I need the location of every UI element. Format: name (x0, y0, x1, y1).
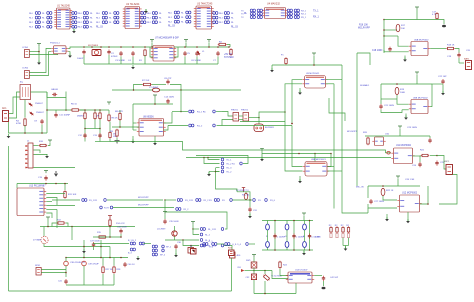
svg-text:C34 100N: C34 100N (117, 227, 127, 229)
IC U13 PIC16F887 (17, 188, 46, 216)
wire c6 gnd (196, 57, 198, 65)
resistor R27 (102, 266, 104, 274)
IC U11 MCP6002 (391, 148, 414, 164)
U9B refdes (311, 159, 327, 161)
resistor-diode D6 (109, 131, 111, 139)
wire U1 gnd (73, 29, 75, 32)
svg-text:C4: C4 (128, 60, 132, 62)
crystal cap box (251, 274, 256, 280)
array A net label r0 (29, 13, 34, 15)
wire ce1 v2 (65, 266, 67, 277)
wire icsp 2 (34, 150, 41, 153)
+5V label line1 (224, 54, 232, 56)
wire spk join (144, 243, 152, 245)
wire R19 down (396, 95, 398, 99)
power flag led block (302, 213, 306, 216)
capacitor C27 (369, 199, 372, 204)
ladder v1 (84, 110, 86, 129)
led block bottom rail (262, 249, 313, 251)
wire C18 (384, 51, 390, 53)
wire pic out4 (46, 205, 75, 207)
connector AC1 (3, 111, 9, 122)
C14 label (164, 97, 174, 99)
net after R25 c (270, 200, 276, 202)
wire cross y125 (217, 125, 293, 127)
capacitor C6 (195, 51, 198, 56)
resistor R9 (116, 129, 118, 138)
junction U5 flag (313, 64, 315, 66)
net r2 a (104, 208, 109, 210)
svg-text:GBU4J: GBU4J (51, 89, 58, 91)
junction rail 109 (108, 46, 110, 48)
net label far right (244, 13, 248, 15)
ICSP refdes (27, 141, 30, 143)
wire c4 gnd (132, 57, 134, 65)
wire piezo1 (172, 111, 188, 113)
wire piezo link b (239, 119, 243, 121)
svg-text:10K: 10K (401, 28, 405, 30)
svg-text:R1: R1 (139, 60, 143, 62)
svg-text:U7 MC34063API 8-DIP: U7 MC34063API 8-DIP (155, 37, 179, 40)
wire U12 in2 (368, 204, 397, 208)
wire MCLR rail (384, 29, 397, 31)
bead D1 (200, 244, 205, 247)
svg-text:RL: RL (90, 27, 94, 29)
piezo net2 (197, 126, 203, 128)
junction rtc in (253, 270, 255, 272)
svg-text:R1_0: R1_0 (270, 200, 276, 202)
array C net label r0 b (109, 13, 113, 15)
net stack r2 (227, 164, 236, 166)
ladder v3 (99, 110, 101, 129)
U4 refdes (267, 3, 281, 6)
wire x72 down (71, 227, 73, 241)
wire U6A in1 (398, 36, 409, 46)
jumper J2 (191, 249, 197, 255)
array G label r2 (241, 17, 244, 19)
R9 label (110, 131, 114, 133)
wire pic low rail (40, 226, 135, 228)
CON1 refdes (22, 47, 29, 49)
net label right of H 1 (313, 11, 319, 13)
svg-text:R19: R19 (400, 89, 405, 91)
array E bead r1 a (174, 16, 179, 19)
array H bead r1 b (294, 12, 299, 15)
junction C9 bottom (41, 132, 43, 134)
C1 value (77, 58, 84, 60)
array C bead r2 a (102, 21, 107, 24)
st4 net label (356, 187, 364, 189)
resistor R14 (109, 219, 111, 227)
wire icsp bottom (34, 167, 76, 169)
svg-text:R2: R2 (346, 225, 349, 227)
svg-text:AC1: AC1 (2, 107, 7, 110)
ladder v4 low (109, 122, 111, 133)
bead piezo2b (213, 124, 216, 127)
array B bead r0 a (72, 12, 77, 15)
C8 label (164, 78, 172, 80)
junction frail 84 (83, 257, 85, 259)
svg-text:RX_1: RX_1 (301, 17, 307, 19)
wire st4 left (367, 186, 369, 198)
rgroup gnd stub (345, 246, 347, 249)
svg-text:U11 MCP6002: U11 MCP6002 (396, 145, 412, 147)
svg-text:RL2: RL2 (168, 22, 173, 24)
svg-text:RL: RL (109, 18, 113, 20)
junction R16 top (383, 19, 385, 21)
filter bottom rail (66, 284, 114, 286)
svg-text:1N4007: 1N4007 (35, 103, 43, 105)
junction timer 155-104 (154, 103, 156, 105)
net mclr 2 (138, 205, 149, 207)
ground U8 right (153, 141, 157, 145)
svg-text:U6A MCP6002: U6A MCP6002 (414, 39, 429, 42)
svg-text:RL_2: RL_2 (227, 172, 233, 174)
svg-text:R1_2: R1_2 (184, 209, 190, 211)
wire rtc h1 (254, 270, 272, 272)
cap column 0 junction top (274, 220, 276, 222)
array A bead r0 a (35, 12, 40, 15)
ground U6B (404, 116, 408, 120)
array C net label r2 (96, 22, 101, 24)
bead spk r1 (152, 245, 157, 248)
junction r14 (109, 226, 111, 228)
bead stack r1 (221, 158, 224, 161)
array G bead r1 a (250, 12, 255, 15)
wire row1 tail (233, 199, 253, 201)
wire c37 stub (93, 247, 95, 250)
ground blob top right (442, 25, 446, 28)
C21 label (384, 105, 394, 107)
power flag U5 (312, 53, 316, 56)
svg-text:RL1: RL1 (29, 18, 34, 20)
wire rtc bottom (254, 293, 296, 295)
array G label r0 (241, 10, 244, 12)
led column 1 wire mid (286, 230, 288, 242)
ground filter (82, 249, 86, 253)
svg-text:RL1: RL1 (219, 18, 224, 20)
IC U9A (302, 76, 327, 89)
wire U8 vleft (132, 104, 134, 130)
RTC in label (238, 267, 242, 269)
capacitor C10 (52, 93, 57, 96)
C15 label (38, 177, 43, 179)
wire bus gnd stub (261, 154, 263, 160)
led D7 dashed (41, 236, 48, 243)
array B net label r0 (78, 13, 83, 15)
svg-text:RL0: RL0 (219, 13, 224, 15)
svg-text:BAT1: BAT1 (464, 58, 470, 61)
C11 label (59, 115, 71, 117)
svg-text:Q1 2N39: Q1 2N39 (157, 229, 166, 231)
resistor R10 (39, 144, 48, 146)
junction buzzer x285 (284, 111, 286, 113)
st2 net label (360, 84, 370, 87)
wire buzzer down (258, 118, 260, 125)
power flag PS input (37, 44, 41, 47)
array F right of U3 bead r1 b (224, 16, 229, 19)
IC opto PS2501 (51, 46, 68, 54)
IC U2 74LS244 (123, 7, 142, 29)
resistor R2 (218, 43, 227, 45)
resistor R22 ellipse (381, 188, 385, 195)
svg-text:SP_2: SP_2 (160, 255, 166, 257)
junction rail 133 (132, 46, 134, 48)
array G bead r0 b (257, 9, 262, 12)
svg-text:MCLR/VPP: MCLR/VPP (347, 131, 358, 133)
inductor L1 diag (196, 50, 201, 56)
bead spk r2 (152, 249, 157, 252)
svg-text:1000P: 1000P (77, 58, 84, 60)
wire U9 gnd (299, 88, 301, 93)
svg-text:C6 100NF: C6 100NF (191, 60, 202, 62)
wire stack r1 (208, 158, 220, 160)
led column 0 wire bot (267, 248, 269, 251)
wire x357 long (356, 53, 358, 186)
svg-text:F1: F1 (281, 55, 284, 57)
wire st3 out (413, 155, 422, 157)
array B bead r3 b (83, 25, 88, 28)
array E net label r0 (168, 12, 173, 14)
array A bead r0 b (47, 12, 52, 15)
wire st3 flag (399, 129, 401, 136)
wire icsp long (8, 146, 10, 168)
wire U9 out v (341, 65, 343, 80)
bead row1 d (196, 199, 201, 202)
svg-text:C7: C7 (213, 60, 217, 62)
led column 0 wire top (267, 221, 269, 225)
array F right of U3 net label r2 (219, 22, 224, 24)
wire R7 loop right (170, 85, 181, 91)
wire pic out5 (46, 209, 57, 211)
svg-text:RL2: RL2 (147, 22, 152, 24)
wire U8 gnd stub (154, 136, 156, 143)
wire top right power (416, 10, 418, 20)
svg-text:C5: C5 (187, 53, 191, 55)
array D right of U2 net label r1 (147, 18, 152, 20)
svg-text:RL3: RL3 (78, 27, 83, 29)
svg-text:T1: T1 (20, 82, 23, 84)
svg-text:RL: RL (244, 13, 248, 15)
net stack r1 (227, 160, 233, 162)
power flag rail 2 (184, 40, 188, 43)
R5 label (71, 104, 78, 106)
net bot c (232, 244, 242, 246)
wire R18 right (455, 49, 459, 53)
wire st3 in1 (110, 142, 391, 153)
svg-text:RL: RL (90, 22, 94, 24)
U2 refdes (126, 3, 140, 6)
bridge label (51, 89, 58, 91)
rgroup bottom wire (343, 245, 349, 247)
cap column 1 label (296, 237, 305, 239)
power flag rail 1 (150, 40, 154, 43)
junction timer mid (119, 126, 121, 128)
led column 2 wire top (304, 221, 306, 225)
R6 label (112, 118, 119, 120)
wire st3 in2 (358, 157, 391, 159)
array A net label r0 b (42, 13, 46, 15)
transformer T1 (20, 85, 31, 100)
junction 292-123 (291, 123, 293, 125)
svg-text:RL: RL (231, 13, 235, 15)
cap column 2 junction top (309, 220, 311, 222)
array A bead r1 a (35, 16, 40, 19)
svg-text:RL: RL (231, 22, 235, 24)
svg-text:U1 74LS245: U1 74LS245 (57, 6, 70, 8)
junction ladder 85 (84, 109, 86, 111)
piezo net1 (197, 112, 206, 114)
array F right of U3 bead r2 a (213, 21, 218, 24)
power flag pic2 (46, 217, 50, 220)
array E net label r0 b (181, 12, 185, 14)
bead stack r2b (240, 162, 243, 165)
wire spk1 b (41, 272, 66, 274)
array B net label r2 b (90, 22, 94, 24)
R4 label (16, 121, 20, 123)
wire 66 v (65, 98, 67, 111)
net after R25 (258, 200, 262, 202)
C2 label (111, 53, 115, 55)
wire R9 gnd (116, 138, 118, 141)
ground opto (68, 54, 72, 58)
power flag pic (44, 171, 48, 174)
wire bridge loop (47, 92, 66, 98)
svg-text:C42 10P: C42 10P (330, 277, 339, 279)
C40 label (128, 264, 136, 266)
wire spk flag (164, 214, 166, 219)
net bot b (209, 247, 214, 249)
svg-text:C21 100N: C21 100N (384, 105, 394, 107)
array A net label r3 b (42, 27, 46, 29)
R8 label (115, 111, 123, 113)
capacitor CE1 (64, 261, 69, 266)
ground rail PS (109, 63, 218, 65)
led column 2 top LED (303, 224, 307, 230)
CE3 label (58, 281, 63, 283)
svg-text:R22 1K: R22 1K (386, 190, 394, 192)
U7 refdes (155, 37, 179, 40)
cap column 1 wire (293, 221, 295, 251)
svg-text:R1_2 R1: R1_2 R1 (204, 200, 213, 202)
capacitor C13 (98, 133, 101, 138)
wire c34 down (120, 234, 122, 237)
power flag bus (260, 148, 264, 151)
svg-text:RL2: RL2 (78, 22, 83, 24)
bead row1 c (177, 199, 182, 202)
cap column 2 junction bottom (309, 249, 311, 251)
C19 label (447, 56, 452, 58)
wire U8 left pins (133, 122, 137, 124)
wire u14 out1 (314, 275, 322, 277)
power flag top right (415, 7, 419, 10)
main dc wire (47, 109, 85, 111)
wire led to filter (44, 244, 110, 247)
wire pic out3 (46, 201, 52, 203)
PIEZO2 refdes (241, 110, 249, 112)
svg-text:RL0: RL0 (168, 12, 173, 14)
array A bead r3 b (47, 25, 52, 28)
array E net label r2 b (181, 22, 185, 24)
power flag bead block (191, 222, 195, 225)
wire st3 rail (365, 135, 430, 137)
rgroup wire b (348, 238, 350, 246)
T1 refdes (20, 82, 23, 84)
wire flag pic2 (47, 220, 49, 227)
wire filter f3 (109, 247, 111, 258)
wire q1 coll (174, 226, 176, 231)
junction pic low2 (71, 226, 73, 228)
connector BAT1 (466, 61, 472, 70)
D1 label (35, 103, 43, 105)
wire right long vertical (231, 258, 233, 291)
junction 292-1235 (291, 123, 293, 125)
svg-text:RL_2 R1: RL_2 R1 (227, 164, 236, 166)
array D right of U2 net label r1 b (159, 18, 163, 20)
ladder bottom wire (95, 141, 110, 143)
array F right of U3 net label r0 (219, 13, 224, 15)
U3 refdes (197, 3, 213, 6)
svg-text:Y2 4MHZ: Y2 4MHZ (149, 87, 159, 89)
capacitor C11 (54, 113, 57, 118)
svg-text:SW1: SW1 (246, 260, 251, 262)
wire c7 gnd (217, 57, 219, 65)
ground rail PS left (84, 63, 109, 65)
junction rail 218 (217, 46, 219, 48)
CON2 refdes (22, 68, 29, 70)
switch SW1 (251, 262, 257, 268)
svg-text:RL: RL (231, 18, 235, 20)
wire timer left v (119, 110, 121, 127)
wire U12 in1 (383, 196, 397, 200)
array D right of U2 bead r2 a (141, 21, 146, 24)
svg-text:R21: R21 (420, 150, 425, 152)
AC refdes (2, 107, 7, 110)
wire J2 up (190, 246, 192, 248)
R27 label (106, 269, 114, 271)
junction piezo power (180, 111, 182, 113)
wire U9 in b (285, 84, 302, 122)
junction y237 121 (120, 236, 122, 238)
bead after R25 b (265, 199, 268, 202)
wire icsp 3 (34, 153, 48, 156)
ic U14 inner band (290, 273, 310, 275)
wire ce1 v (65, 258, 67, 262)
junction AC bottom (24, 132, 26, 134)
C17 label (432, 12, 437, 14)
bead bot d (246, 243, 249, 246)
svg-text:470K: 470K (16, 123, 22, 125)
wire r14 down (109, 227, 111, 237)
wire bead row A (193, 228, 199, 230)
array C bead r1 a (102, 16, 107, 19)
bead A2 (221, 228, 224, 231)
bead spk a (130, 242, 135, 245)
R22 label (386, 190, 394, 192)
junction rail 101 (100, 46, 102, 48)
ground U8 left (131, 139, 135, 143)
junction rtc x265 (264, 270, 266, 272)
wire stack loop (216, 168, 238, 192)
resistor R19 ellipse (395, 87, 399, 94)
R16 label (359, 25, 368, 27)
junction timer 133 (133, 89, 135, 91)
wire bead row C (165, 239, 199, 241)
svg-text:R18 1K: R18 1K (447, 45, 455, 47)
rgroup resistor 1 (336, 226, 338, 233)
junction frail 110 (109, 257, 111, 259)
array D right of U2 bead r1 b (152, 16, 157, 19)
